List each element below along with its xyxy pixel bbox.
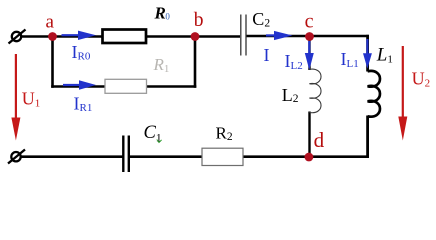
wire: node c down to L2	[308, 37, 310, 71]
svg-text:R2: R2	[216, 124, 233, 144]
wire bottom: R2 to bottom-right corner	[243, 155, 369, 158]
inductor L1 (thick coil)	[368, 71, 380, 117]
resistor R0	[103, 30, 147, 44]
voltage arrow U2	[398, 46, 407, 141]
wire: left vertical a to R1 branch	[51, 35, 54, 88]
wire top: C2 to top-right corner	[247, 35, 369, 38]
svg-text:IL2: IL2	[285, 51, 303, 72]
current arrow IL2	[305, 41, 314, 70]
svg-text:c: c	[305, 11, 314, 33]
node d	[305, 153, 314, 162]
svg-text:R0: R0	[154, 4, 171, 23]
wire: R1 branch right segment	[147, 85, 197, 88]
wire: L2 bottom to node d	[308, 112, 310, 158]
wire: right vertical b to R1 branch	[194, 35, 197, 88]
current arrow IL1	[363, 39, 372, 69]
wire: top-right corner down to L1	[366, 35, 369, 72]
svg-text:U1: U1	[22, 88, 41, 109]
svg-text:R1: R1	[153, 55, 170, 75]
green mark under C1 subscript	[157, 140, 162, 143]
svg-text:L2: L2	[282, 85, 299, 105]
node a	[48, 32, 57, 41]
svg-text:I: I	[264, 45, 270, 65]
wire top: R0 to C2	[147, 35, 241, 38]
capacitor C1 plates	[123, 136, 129, 173]
resistor R1 (gray)	[105, 79, 147, 93]
svg-text:d: d	[314, 128, 325, 152]
node c	[305, 32, 314, 41]
svg-text:L1: L1	[376, 45, 393, 66]
current arrow I	[266, 31, 293, 40]
svg-text:IR1: IR1	[74, 93, 93, 114]
svg-text:U2: U2	[412, 69, 431, 90]
terminal top-left	[9, 30, 26, 44]
terminal bottom-left	[8, 150, 25, 164]
resistor R2	[202, 148, 243, 165]
svg-text:IL1: IL1	[341, 49, 359, 70]
wire bottom: terminal to C1	[20, 155, 123, 158]
capacitor C2 plates	[241, 15, 246, 56]
current arrow IR1	[63, 80, 96, 89]
svg-text:IR0: IR0	[72, 42, 91, 63]
svg-text:a: a	[46, 11, 55, 32]
inductor L2 (thin coil)	[309, 69, 321, 113]
svg-text:C1: C1	[144, 123, 162, 145]
voltage arrow U1	[11, 54, 20, 141]
wire: R1 branch left segment	[51, 85, 104, 88]
svg-text:b: b	[194, 10, 204, 31]
node b	[191, 32, 200, 41]
current arrow IR0	[62, 31, 97, 40]
wire: L1 bottom to bottom-right corner	[366, 116, 369, 159]
svg-text:C2: C2	[252, 9, 270, 29]
wire top: terminal to R0	[20, 35, 102, 38]
wire bottom: C1 to R2	[130, 155, 203, 158]
